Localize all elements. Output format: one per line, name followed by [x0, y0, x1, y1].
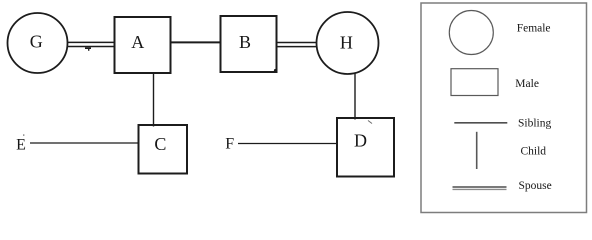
legend male rectangle	[451, 69, 498, 96]
stray blob at B bottom-right corner	[274, 69, 277, 72]
legend sibling line	[454, 122, 507, 124]
square D	[337, 118, 394, 177]
svg-text:C: C	[154, 134, 166, 154]
svg-text:H: H	[340, 33, 353, 53]
stray tick under G-A spouse line	[85, 47, 91, 51]
svg-text:Spouse: Spouse	[519, 180, 552, 192]
svg-text:Female: Female	[517, 22, 551, 34]
svg-text:Sibling: Sibling	[518, 118, 551, 130]
svg-text:E: E	[16, 136, 26, 153]
stray mark inside square D	[368, 121, 372, 124]
wire spouse double line B-H	[277, 43, 318, 47]
circle H	[317, 12, 379, 74]
svg-text:B: B	[239, 32, 251, 52]
wire child line A-C	[153, 73, 155, 127]
svg-text:D: D	[354, 130, 367, 150]
wire sibling line A-B	[171, 41, 221, 43]
legend child line	[476, 132, 478, 169]
svg-text:F: F	[225, 136, 234, 153]
wire child line H-D	[354, 74, 356, 120]
wire line F-D	[238, 143, 337, 145]
legend female circle	[449, 11, 493, 55]
svg-text:Child: Child	[521, 146, 547, 158]
legend spouse double line	[453, 187, 507, 189]
svg-text:A: A	[131, 32, 144, 52]
legend box	[421, 3, 587, 213]
wire spouse double line G-A	[68, 42, 115, 46]
circle G	[8, 13, 68, 73]
square B	[221, 16, 277, 72]
square A	[115, 17, 171, 73]
svg-text:G: G	[30, 32, 43, 52]
svg-text:Male: Male	[515, 78, 539, 90]
wire line E-C	[30, 142, 139, 144]
square C	[139, 125, 188, 174]
stray dot above E	[23, 134, 24, 136]
